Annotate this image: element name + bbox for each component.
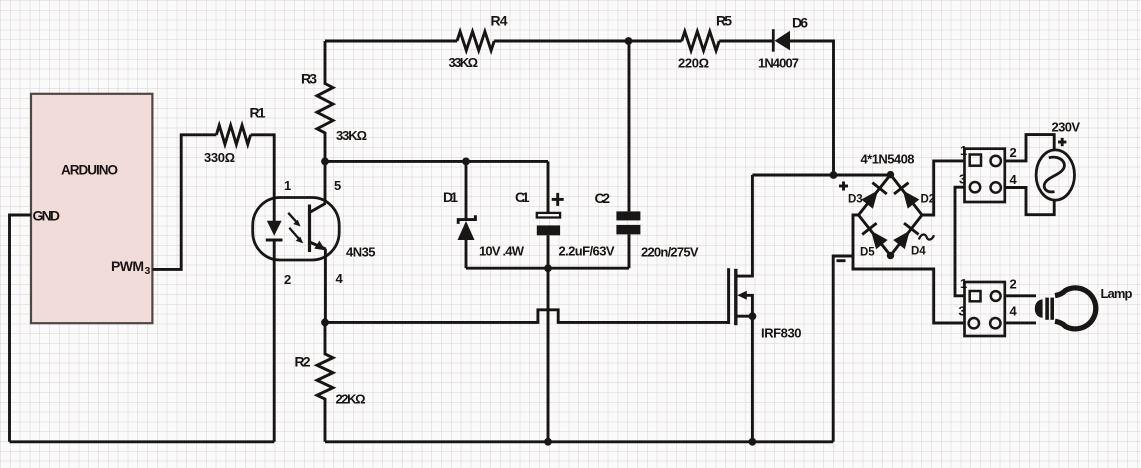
svg-text:4N35: 4N35 — [346, 245, 376, 260]
resistor R4 — [457, 32, 494, 51]
plus sign source — [1058, 138, 1066, 146]
svg-text:R3: R3 — [301, 71, 317, 87]
connector J2 lamp output — [965, 282, 1005, 336]
wire D6 to bridge plus node — [790, 41, 834, 175]
junction dot D1 top — [462, 158, 470, 166]
bridge rectifier 4*1N5408 — [859, 171, 923, 259]
junction dot C1 wire at rail — [544, 438, 552, 446]
svg-text:33KΩ: 33KΩ — [336, 128, 367, 143]
svg-text:4: 4 — [336, 271, 344, 286]
svg-text:D3: D3 — [848, 193, 863, 205]
capacitor C2 — [616, 41, 640, 268]
junction dot gate node — [321, 319, 329, 327]
svg-text:1: 1 — [960, 276, 967, 291]
svg-text:GND: GND — [33, 208, 61, 224]
capacitor C1 electrolytic — [537, 161, 560, 268]
svg-text:R5: R5 — [716, 13, 732, 29]
Arduino module — [31, 94, 152, 323]
light arrows inside optocoupler — [288, 213, 303, 244]
junction dot C1 bottom — [544, 264, 552, 272]
diode D3 — [861, 183, 887, 209]
MOSFET Q1 IRF830 — [729, 175, 757, 442]
wire node A horizontal (R3 bottom to C1 top) — [325, 160, 548, 163]
svg-text:R2: R2 — [295, 354, 311, 370]
svg-text:4*1N5408: 4*1N5408 — [861, 152, 915, 167]
AC source 230V — [1036, 150, 1074, 200]
svg-text:220n/275V: 220n/275V — [641, 245, 699, 260]
svg-text:1: 1 — [284, 178, 291, 193]
svg-text:2: 2 — [1010, 145, 1017, 160]
svg-text:33KΩ: 33KΩ — [449, 55, 479, 70]
LED inside optocoupler — [266, 198, 283, 260]
svg-text:5: 5 — [334, 178, 341, 193]
wire PWM3 up to R1 — [153, 135, 217, 270]
svg-text:2: 2 — [284, 272, 291, 287]
junction dot node A — [321, 158, 329, 166]
svg-text:230V: 230V — [1052, 120, 1081, 135]
wire bridge AC right corner to connector J1 pin 1 — [922, 161, 965, 215]
wire MOSFET drain rail to bridge plus corner — [752, 174, 890, 177]
minus sign bridge — [837, 259, 846, 262]
svg-text:330Ω: 330Ω — [204, 150, 235, 165]
wire top rail R3 to R4 — [325, 40, 457, 43]
wire bridge minus loop to lamp connector pin 3 — [853, 215, 965, 323]
svg-text:C1: C1 — [515, 189, 530, 205]
zener diode D1 — [458, 161, 476, 268]
wire J2 pin 2 to lamp — [1005, 294, 1036, 297]
svg-text:Lamp: Lamp — [1101, 286, 1133, 301]
wire J2 pin 4 to lamp — [1005, 321, 1036, 324]
wire mains ground rail — [325, 440, 833, 443]
wire J1 pin 2 to AC source top — [1005, 135, 1054, 161]
svg-text:22KΩ: 22KΩ — [336, 392, 366, 407]
svg-text:3: 3 — [145, 265, 151, 277]
svg-text:1N4007: 1N4007 — [758, 56, 799, 71]
lamp symbol — [1035, 288, 1096, 329]
connector J1 mains input — [965, 149, 1005, 202]
wire optocoupler pin 4 down to gate node — [324, 249, 327, 323]
wire J1 pin 4 to AC source bottom — [1005, 188, 1054, 215]
junction dot plus rail — [830, 171, 838, 179]
svg-text:IRF830: IRF830 — [761, 326, 802, 341]
svg-text:PWM: PWM — [111, 258, 144, 274]
junction dot top rail C2 — [625, 37, 633, 45]
wire left ground rail — [10, 440, 275, 443]
resistor R5 — [682, 31, 720, 50]
svg-text:220Ω: 220Ω — [678, 56, 709, 71]
svg-text:2: 2 — [1010, 277, 1017, 292]
svg-text:2.2uF/63V: 2.2uF/63V — [559, 244, 615, 259]
plus sign C1 polarity — [552, 193, 564, 206]
svg-text:C2: C2 — [595, 190, 611, 206]
diode D4 — [893, 223, 918, 249]
svg-text:D4: D4 — [911, 246, 926, 258]
wire optocoupler pin 5 from node A — [324, 161, 327, 203]
svg-text:4: 4 — [1010, 172, 1018, 187]
AC tilde mark bridge — [919, 234, 934, 239]
wire minus branch to mains ground rail — [833, 256, 853, 442]
wire R1 to optocoupler pin 1 — [251, 135, 275, 198]
svg-text:D5: D5 — [860, 247, 875, 259]
phototransistor inside optocoupler — [310, 203, 326, 252]
svg-text:4: 4 — [1010, 304, 1018, 319]
diode D5 — [862, 223, 888, 249]
wire gate node to MOSFET gate with hop over C1 wire — [325, 310, 729, 323]
wire J1 pin 3 to J2 pin 1 — [955, 187, 965, 296]
pin label PWM 3 — [111, 258, 151, 277]
svg-text:10V .4W: 10V .4W — [479, 244, 525, 259]
plus sign bridge — [839, 182, 848, 191]
optocoupler U1 4N35 body — [253, 198, 340, 261]
wire GND to left ground rail — [10, 215, 32, 442]
svg-text:R4: R4 — [491, 13, 508, 29]
resistor R2 — [317, 322, 333, 441]
svg-text:D1: D1 — [443, 189, 458, 205]
wire optocoupler pin 2 down to ground rail — [273, 260, 276, 442]
wire D1 C1 C2 bottom rail — [466, 267, 629, 270]
svg-text:3: 3 — [959, 171, 966, 186]
wire C1 node down to mains ground rail — [547, 268, 550, 442]
wire R4 to R5 (C2 node) — [494, 40, 682, 43]
wire R5 to D6 — [719, 40, 773, 43]
resistor R3 with leads — [317, 41, 333, 161]
diode D2 — [894, 183, 919, 209]
svg-text:1: 1 — [960, 143, 967, 158]
svg-text:D6: D6 — [792, 15, 808, 31]
svg-text:R1: R1 — [250, 105, 266, 121]
resistor R1 — [216, 125, 250, 144]
svg-text:ARDUINO: ARDUINO — [61, 163, 118, 178]
diode D6 1N4007 — [773, 29, 790, 52]
svg-text:3: 3 — [959, 304, 966, 319]
junction dot source at rail — [749, 438, 757, 446]
